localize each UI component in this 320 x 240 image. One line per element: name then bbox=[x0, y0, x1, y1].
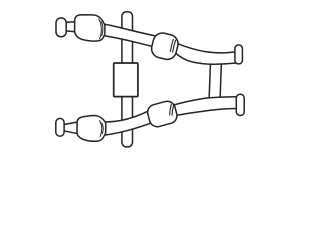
upper pipe top edge bbox=[105, 24, 154, 35]
lower pipe bottom edge bbox=[105, 123, 150, 135]
upper resonator bbox=[150, 31, 180, 61]
upper exhaust pipe (fill) bbox=[104, 24, 237, 64]
upper catalytic converter bbox=[75, 15, 105, 41]
upper pipe bottom edge bbox=[104, 36, 153, 47]
lower catalytic converter bbox=[77, 116, 106, 142]
lower right outlet flange bbox=[236, 94, 244, 115]
lower converter seam bbox=[100, 121, 104, 137]
upper pipe inlet neck bbox=[66, 22, 76, 32]
lower pipe top edge bbox=[106, 110, 150, 122]
upper resonator seam bbox=[170, 39, 175, 52]
upper left inlet flange bbox=[56, 18, 66, 37]
crossover pipe legs (right H section) bbox=[209, 62, 221, 99]
lower left inlet flange bbox=[56, 118, 64, 136]
upper right outlet flange bbox=[235, 45, 243, 64]
upper converter seam bbox=[99, 19, 103, 39]
lower exhaust pipe (fill) bbox=[105, 97, 236, 135]
lower resonator seam bbox=[170, 104, 174, 115]
lower resonator bbox=[146, 100, 179, 129]
lower pipe inlet neck bbox=[64, 122, 79, 134]
hanger rod (vertical center bar) bbox=[122, 12, 133, 147]
hanger block on rod bbox=[114, 63, 138, 97]
